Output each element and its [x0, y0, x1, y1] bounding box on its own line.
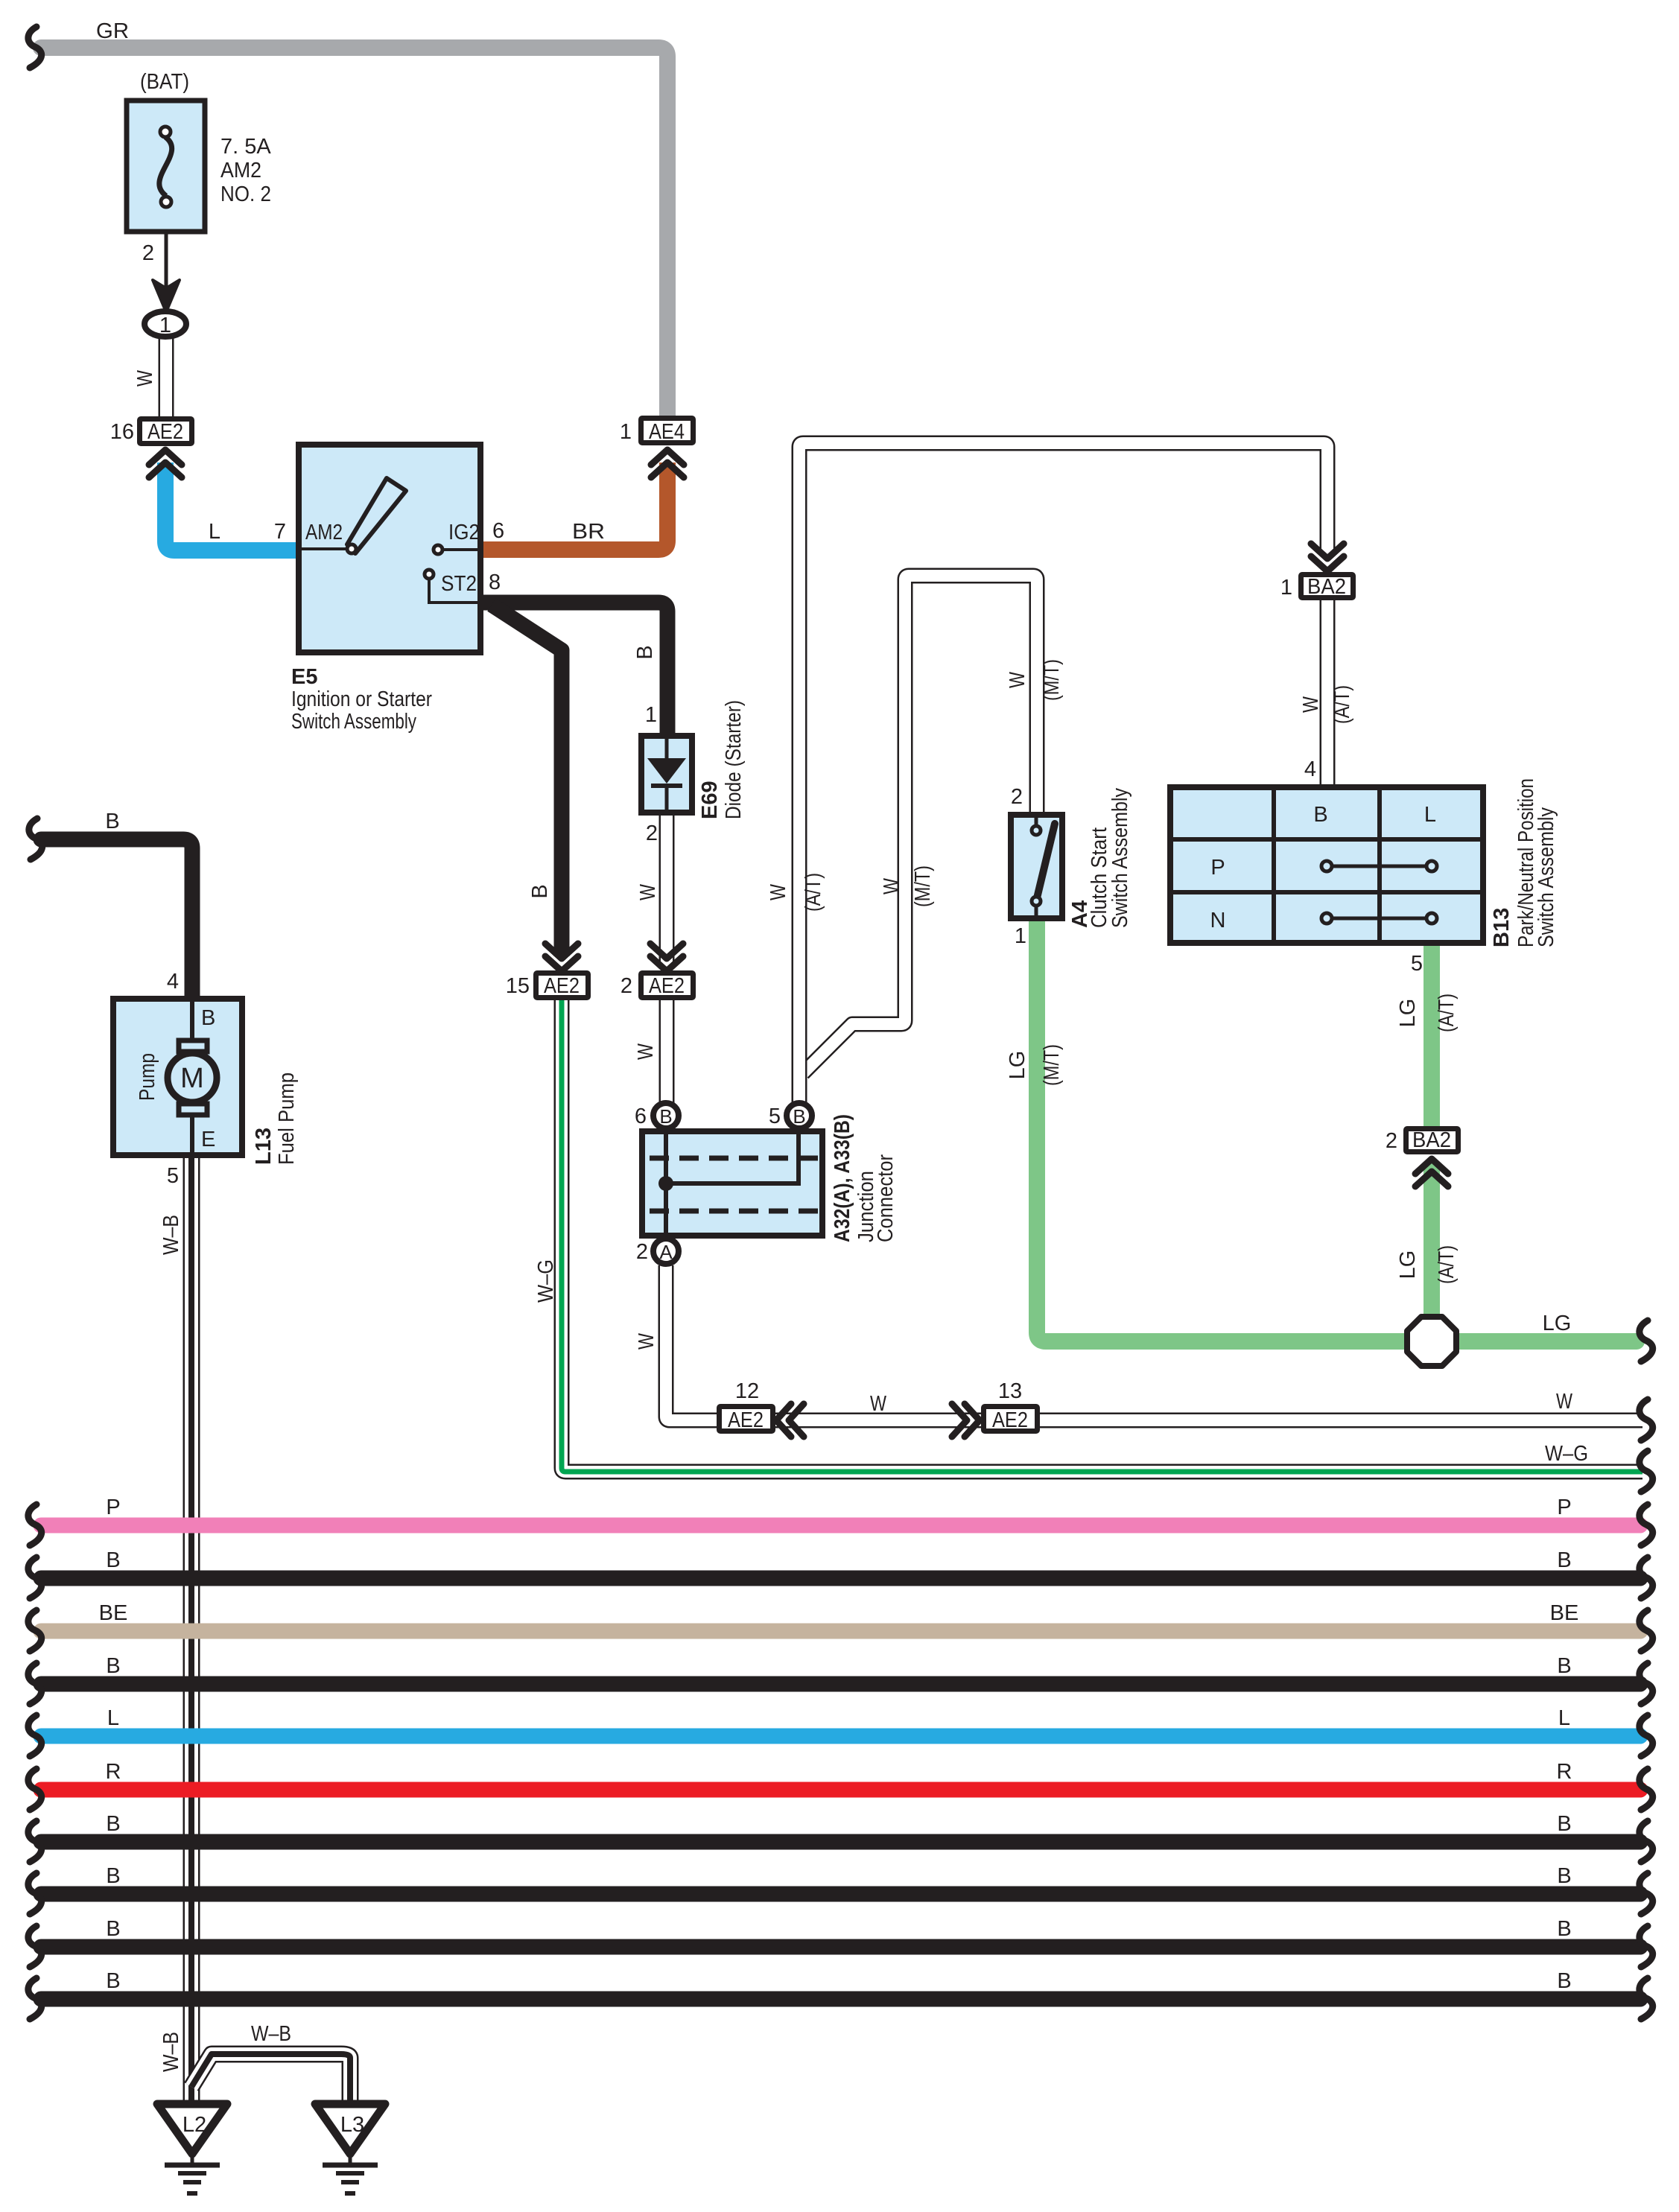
svg-text:AE2: AE2 [544, 974, 580, 998]
svg-text:BA2: BA2 [1412, 1128, 1451, 1152]
svg-text:W: W [870, 1392, 887, 1416]
svg-text:Fuel Pump: Fuel Pump [275, 1072, 299, 1165]
svg-text:B: B [633, 645, 657, 659]
svg-text:5: 5 [769, 1105, 781, 1128]
svg-text:GR: GR [96, 19, 129, 43]
svg-text:B: B [106, 1864, 120, 1888]
svg-text:2: 2 [646, 821, 658, 845]
svg-text:Pump: Pump [136, 1053, 159, 1101]
svg-text:B: B [1557, 1654, 1571, 1678]
svg-text:R: R [1557, 1760, 1572, 1784]
svg-text:2: 2 [636, 1240, 648, 1264]
svg-text:B13: B13 [1490, 908, 1514, 947]
svg-text:(M/T): (M/T) [1040, 1044, 1064, 1086]
svg-text:(M/T): (M/T) [911, 865, 935, 907]
svg-text:LG: LG [1543, 1312, 1572, 1335]
svg-text:B: B [105, 810, 119, 833]
svg-text:P: P [106, 1496, 120, 1519]
svg-text:LG: LG [1396, 999, 1420, 1028]
svg-text:13: 13 [998, 1379, 1022, 1403]
svg-text:B: B [1557, 1812, 1571, 1836]
svg-text:B: B [1557, 1864, 1571, 1888]
svg-text:W–B: W–B [251, 2022, 291, 2046]
svg-text:R: R [106, 1760, 121, 1784]
svg-text:1: 1 [159, 314, 171, 337]
svg-text:Switch Assembly: Switch Assembly [1108, 788, 1132, 928]
svg-text:B: B [106, 1654, 120, 1678]
svg-text:W: W [634, 1043, 658, 1060]
svg-text:(BAT): (BAT) [140, 70, 189, 94]
svg-text:7: 7 [274, 520, 286, 544]
svg-text:(A/T): (A/T) [1435, 994, 1459, 1032]
svg-text:W: W [880, 877, 904, 894]
svg-text:W–B: W–B [159, 2032, 183, 2072]
svg-text:W: W [1556, 1390, 1573, 1414]
svg-text:(A/T): (A/T) [1330, 685, 1354, 724]
svg-text:6: 6 [635, 1105, 647, 1128]
svg-text:8: 8 [489, 571, 501, 594]
svg-text:LG: LG [1006, 1051, 1029, 1080]
svg-text:4: 4 [167, 970, 179, 994]
svg-text:16: 16 [110, 420, 134, 444]
svg-text:6: 6 [492, 519, 504, 543]
svg-text:AM2: AM2 [305, 521, 343, 544]
svg-text:A: A [659, 1241, 673, 1263]
svg-text:15: 15 [506, 974, 530, 998]
svg-text:1: 1 [620, 420, 632, 444]
svg-text:4: 4 [1304, 757, 1316, 781]
svg-text:AM2: AM2 [220, 159, 261, 182]
svg-text:L: L [107, 1706, 119, 1730]
svg-text:Connector: Connector [874, 1154, 898, 1242]
svg-text:AE2: AE2 [147, 420, 183, 444]
svg-text:B: B [106, 1812, 120, 1836]
svg-text:L: L [1424, 803, 1436, 827]
svg-text:Ignition or Starter: Ignition or Starter [291, 687, 432, 711]
svg-text:W: W [1299, 696, 1323, 713]
svg-text:P: P [1210, 856, 1225, 880]
svg-text:BR: BR [572, 520, 605, 544]
svg-text:2: 2 [1386, 1129, 1397, 1153]
svg-text:W: W [133, 369, 157, 387]
svg-text:5: 5 [1411, 952, 1423, 976]
svg-text:L3: L3 [340, 2113, 364, 2137]
svg-text:12: 12 [735, 1379, 759, 1403]
svg-text:L: L [1558, 1706, 1570, 1730]
svg-text:M: M [180, 1063, 204, 1094]
svg-text:E5: E5 [291, 665, 317, 689]
svg-text:A32(A), A33(B): A32(A), A33(B) [831, 1114, 854, 1242]
svg-text:2: 2 [620, 974, 632, 998]
svg-text:W–G: W–G [1545, 1442, 1588, 1466]
svg-text:Diode (Starter): Diode (Starter) [722, 700, 746, 819]
svg-text:1: 1 [1015, 924, 1026, 948]
svg-text:Switch Assembly: Switch Assembly [1534, 807, 1558, 947]
svg-text:7. 5A: 7. 5A [220, 135, 271, 159]
svg-text:2: 2 [1011, 785, 1023, 809]
svg-text:W: W [766, 883, 790, 900]
svg-text:E69: E69 [698, 781, 722, 819]
svg-text:2: 2 [142, 241, 154, 265]
svg-text:1: 1 [645, 703, 657, 727]
svg-text:LG: LG [1396, 1250, 1420, 1280]
svg-text:B: B [528, 884, 552, 898]
svg-text:B: B [1557, 1917, 1571, 1941]
svg-text:W: W [635, 1332, 658, 1350]
svg-text:AE2: AE2 [992, 1408, 1028, 1432]
svg-text:N: N [1210, 909, 1226, 932]
svg-text:B: B [1557, 1548, 1571, 1572]
svg-text:W: W [636, 883, 660, 900]
svg-text:BE: BE [1550, 1601, 1579, 1625]
svg-text:BE: BE [99, 1601, 128, 1625]
svg-text:AE4: AE4 [649, 420, 685, 444]
svg-text:AE2: AE2 [649, 974, 685, 998]
svg-text:B: B [1313, 803, 1327, 827]
svg-text:NO. 2: NO. 2 [220, 182, 271, 206]
svg-text:1: 1 [1280, 576, 1292, 600]
svg-text:B: B [659, 1105, 672, 1128]
svg-text:IG2: IG2 [448, 521, 480, 544]
svg-text:(M/T): (M/T) [1040, 659, 1064, 701]
svg-text:E: E [201, 1128, 215, 1151]
svg-text:(A/T): (A/T) [802, 873, 825, 912]
svg-text:5: 5 [167, 1164, 179, 1188]
svg-text:B: B [201, 1006, 215, 1030]
svg-text:AE2: AE2 [728, 1408, 764, 1432]
svg-text:P: P [1557, 1496, 1571, 1519]
svg-text:W–G: W–G [534, 1259, 558, 1303]
svg-text:B: B [1557, 1969, 1571, 1993]
svg-text:W–B: W–B [159, 1215, 183, 1255]
svg-text:ST2: ST2 [441, 572, 477, 596]
svg-text:BA2: BA2 [1307, 575, 1346, 599]
svg-text:B: B [106, 1969, 120, 1993]
svg-text:W: W [1006, 671, 1029, 688]
svg-text:L: L [209, 520, 220, 544]
svg-text:B: B [793, 1105, 805, 1128]
svg-text:L13: L13 [252, 1128, 276, 1165]
svg-text:(A/T): (A/T) [1435, 1245, 1459, 1284]
svg-text:L2: L2 [182, 2113, 206, 2137]
svg-text:B: B [106, 1917, 120, 1941]
svg-text:B: B [106, 1548, 120, 1572]
svg-text:Switch Assembly: Switch Assembly [291, 710, 416, 734]
